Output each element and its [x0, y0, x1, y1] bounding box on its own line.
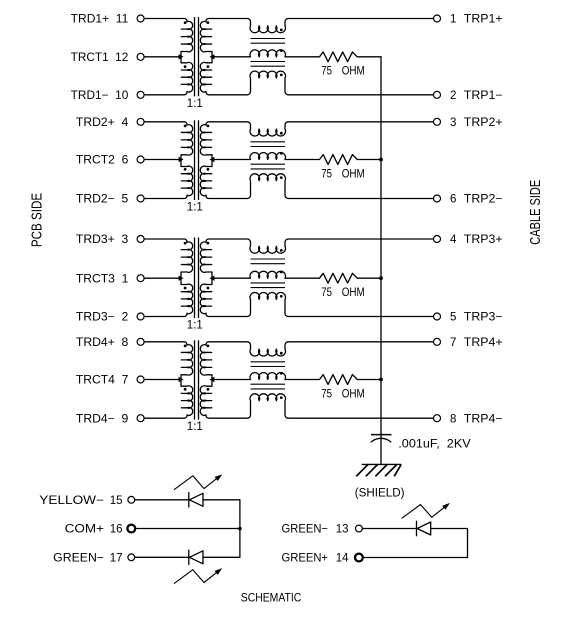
svg-text:TRD2+ 4: TRD2+ 4 — [76, 117, 129, 129]
transformer T1 primary center-tap junction — [179, 54, 184, 59]
LED D3 green: wire pin 13 to cathode — [362, 528, 416, 530]
pin 7 TRCT4 label — [76, 375, 128, 387]
svg-text:OHM: OHM — [342, 66, 365, 78]
svg-text:TRCT1 12: TRCT1 12 — [71, 52, 129, 64]
choke L3 phase dot top — [280, 249, 283, 252]
svg-text:75: 75 — [321, 168, 332, 180]
transformer T3 primary lower winding — [181, 278, 193, 313]
transformer T3 secondary upper winding — [200, 242, 212, 278]
svg-text:GREEN−: GREEN− — [282, 524, 329, 536]
pin 5 TRP3− label — [450, 312, 503, 324]
wire COM+ pin 16 to LED common — [135, 528, 240, 530]
choke L3 core upper — [251, 259, 286, 264]
choke L2 top winding with wire to pin — [206, 122, 434, 136]
pin 16 COM+ label — [65, 524, 123, 536]
transformer T1 secondary center-tap junction — [210, 54, 215, 59]
transformer T4 phase dot primary upper — [184, 345, 187, 348]
transformer T1 primary lower winding — [181, 57, 193, 92]
svg-text:TRP2+: TRP2+ — [464, 117, 503, 129]
choke L1 core upper — [251, 39, 286, 44]
transformer T1 phase dot secondary upper — [207, 21, 210, 24]
pin 2 TRP1− terminal circle — [434, 91, 441, 98]
pin 1 TRCT3 label — [76, 273, 128, 285]
LED D2 green: wire pin 17 to cathode — [135, 556, 189, 558]
svg-text:16: 16 — [110, 524, 123, 536]
LED D3 cathode bar — [416, 521, 418, 535]
junction of R4 with shield bus — [379, 378, 383, 382]
svg-text:1:1: 1:1 — [187, 421, 203, 433]
resistor R2 75 OHM — [285, 155, 381, 165]
pin 2 TRP1− label — [450, 90, 503, 102]
resistor R4 75 OHM — [285, 375, 381, 385]
transformer T4 primary upper winding — [181, 345, 193, 380]
transformer T2 secondary lower winding — [200, 160, 212, 196]
pin 12 TRCT1 terminal circle — [137, 53, 144, 60]
LED D2 emission arrow — [174, 570, 220, 584]
transformer T4 secondary center-tap junction — [210, 377, 215, 382]
svg-text:3: 3 — [450, 117, 456, 129]
transformer T2 phase dot primary upper — [184, 125, 187, 128]
svg-text:75: 75 — [321, 287, 332, 299]
transformer T4 secondary upper winding — [200, 345, 212, 380]
transformer T1 secondary upper winding — [200, 21, 212, 56]
LED D2 cathode bar — [188, 550, 190, 564]
choke L4 bottom winding with wire to pin — [206, 394, 434, 418]
svg-text:CABLE SIDE: CABLE SIDE — [527, 180, 544, 245]
choke L4 phase dot middle — [280, 372, 283, 375]
svg-text:2: 2 — [450, 90, 456, 102]
pin 15 YELLOW− label — [39, 495, 122, 507]
pin 17 GREEN− terminal circle — [128, 554, 135, 561]
wire LED D1 anode to common — [203, 500, 240, 558]
pin 4 TRP3+ label — [450, 234, 503, 246]
svg-text:4: 4 — [450, 234, 457, 246]
LED D1 triangle — [189, 493, 203, 506]
wire TRCT2 pin to transformer T2 center tap — [144, 159, 181, 161]
pin 1 TRCT3 terminal circle — [137, 275, 144, 282]
transformer T3 primary upper winding — [181, 242, 193, 278]
pin 13 GREEN− terminal circle — [356, 525, 363, 532]
pin 6 TRCT2 label — [76, 155, 128, 167]
choke L1 top winding with wire to pin — [206, 18, 434, 32]
pin 11 TRD1+ label — [71, 14, 129, 26]
pin 8 TRP4− terminal circle — [434, 415, 441, 422]
svg-text:OHM: OHM — [342, 168, 365, 180]
svg-text:1:1: 1:1 — [187, 202, 203, 214]
transformer T3 phase dot primary upper — [184, 242, 187, 245]
pin 13 GREEN− label — [282, 524, 349, 536]
pin 12 TRCT1 label — [71, 52, 129, 64]
svg-text:TRCT2 6: TRCT2 6 — [76, 155, 128, 167]
choke L2 core upper — [251, 142, 286, 147]
choke L1 bottom winding with wire to pin — [206, 71, 434, 95]
wire TRD3+ pin to transformer T3 — [144, 239, 187, 242]
transformer T4 phase dot secondary lower — [207, 388, 210, 391]
junction of R3 with shield bus — [379, 276, 383, 280]
pin 14 GREEN+ label — [282, 553, 350, 565]
transformer T4 core — [195, 340, 199, 419]
transformer T3 core — [195, 238, 199, 319]
pin 16 COM+ terminal circle — [127, 525, 135, 533]
choke L4 core upper — [251, 362, 286, 367]
pin 4 TRD2+ terminal circle — [137, 118, 144, 125]
transformer T3 phase dot secondary upper — [207, 242, 210, 245]
transformer T4 secondary lower winding — [200, 380, 212, 416]
choke L2 middle winding — [212, 153, 285, 160]
svg-text:75: 75 — [321, 66, 332, 78]
pin 3 TRD3+ label — [76, 234, 128, 246]
pin 6 TRP2− label — [450, 194, 503, 206]
pin 4 TRD2+ label — [76, 117, 129, 129]
pin 7 TRP4+ terminal circle — [434, 338, 441, 345]
wire TRD1- pin to transformer T1 — [144, 92, 187, 95]
transformer T2 primary center-tap junction — [179, 157, 184, 162]
pin 15 YELLOW− terminal circle — [128, 496, 135, 503]
choke L4 phase dot bottom — [280, 396, 283, 399]
choke L2 phase dot bottom — [280, 176, 283, 179]
transformer T4 phase dot primary lower — [184, 388, 187, 391]
label 75 OHM for R3 — [321, 287, 365, 299]
svg-text:1:1: 1:1 — [187, 98, 203, 110]
wire TRCT3 pin to transformer T3 center tap — [144, 277, 181, 279]
transformer T3 phase dot secondary lower — [207, 287, 210, 290]
wire TRCT4 pin to transformer T4 center tap — [144, 379, 181, 381]
transformer T4 primary center-tap junction — [179, 377, 184, 382]
svg-text:TRD2− 5: TRD2− 5 — [76, 194, 128, 206]
choke L1 phase dot bottom — [280, 74, 283, 77]
svg-text:TRD4+ 8: TRD4+ 8 — [76, 337, 128, 349]
choke L2 phase dot top — [280, 132, 283, 135]
svg-text:(SHIELD): (SHIELD) — [355, 488, 405, 500]
choke L2 bottom winding with wire to pin — [206, 174, 434, 199]
pin 6 TRCT2 terminal circle — [137, 156, 144, 163]
pin 8 TRD4+ terminal circle — [137, 338, 144, 345]
pin 8 TRD4+ label — [76, 337, 128, 349]
LED D3 triangle — [417, 522, 431, 535]
choke L2 phase dot middle — [280, 152, 283, 155]
svg-text:14: 14 — [336, 553, 349, 565]
transformer T3 phase dot primary lower — [184, 287, 187, 290]
wire TRD2+ pin to transformer T2 — [144, 122, 187, 125]
choke L1 phase dot middle — [280, 49, 283, 52]
pin 17 GREEN− label — [53, 553, 122, 565]
svg-text:YELLOW−: YELLOW− — [39, 495, 104, 507]
pin 3 TRD3+ terminal circle — [137, 236, 144, 243]
transformer T1 core — [195, 17, 199, 96]
transformer T3 secondary lower winding — [200, 278, 212, 313]
choke L4 phase dot top — [280, 352, 283, 355]
svg-text:7: 7 — [450, 337, 456, 349]
ground (shield earth) — [356, 464, 401, 476]
pin 6 TRP2− terminal circle — [434, 195, 441, 202]
pin 1 TRP1+ terminal circle — [434, 15, 441, 22]
transformer T2 primary lower winding — [181, 160, 193, 196]
svg-text:TRP1−: TRP1− — [464, 90, 503, 102]
transformer T2 core — [195, 120, 199, 200]
choke L2 core lower — [251, 164, 286, 169]
choke L4 top winding with wire to pin — [206, 342, 434, 356]
svg-text:TRP3−: TRP3− — [464, 312, 503, 324]
wire TRD3- pin to transformer T3 — [144, 313, 187, 316]
pin 8 TRP4− label — [450, 413, 503, 425]
svg-text:TRD3− 2: TRD3− 2 — [76, 312, 128, 324]
wire TRCT1 pin to transformer T1 center tap — [144, 56, 181, 58]
pin 5 TRD2− label — [76, 194, 128, 206]
svg-text:1:1: 1:1 — [187, 320, 203, 332]
transformer T2 primary upper winding — [181, 125, 193, 160]
LED D1 yellow: wire pin 15 to cathode — [135, 499, 189, 501]
svg-text:.001uF, 2KV: .001uF, 2KV — [398, 438, 471, 450]
label 75 OHM for R1 — [321, 66, 365, 78]
capacitor C1 flat plate — [371, 434, 392, 436]
pin 2 TRD3− label — [76, 312, 128, 324]
svg-text:TRD1+ 11: TRD1+ 11 — [71, 14, 129, 26]
svg-text:17: 17 — [110, 553, 123, 565]
transformer T2 secondary upper winding — [200, 125, 212, 160]
junction of R2 with shield bus — [379, 158, 383, 162]
choke L1 phase dot top — [280, 29, 283, 32]
choke L4 middle winding — [212, 373, 285, 380]
svg-text:TRP1+: TRP1+ — [464, 14, 503, 26]
junction COM+ with LED common — [238, 527, 242, 531]
svg-text:13: 13 — [336, 524, 349, 536]
svg-text:GREEN−: GREEN− — [53, 553, 104, 565]
transformer T1 phase dot primary upper — [184, 21, 187, 24]
svg-text:OHM: OHM — [342, 388, 365, 400]
svg-text:TRD1− 10: TRD1− 10 — [71, 90, 129, 102]
pin 5 TRD2− terminal circle — [137, 195, 144, 202]
choke L3 phase dot bottom — [280, 295, 283, 298]
wire TRD4+ pin to transformer T4 — [144, 342, 187, 345]
svg-text:OHM: OHM — [342, 287, 365, 299]
LED D3 emission arrow — [402, 505, 448, 519]
transformer T3 secondary center-tap junction — [210, 276, 215, 281]
choke L3 middle winding — [212, 271, 285, 278]
pin 7 TRP4+ label — [450, 337, 503, 349]
pin 9 TRD4− label — [76, 413, 128, 425]
choke L3 core lower — [251, 283, 286, 288]
choke L3 top winding with wire to pin — [206, 239, 434, 253]
wire TRD2- pin to transformer T2 — [144, 195, 187, 198]
pin 4 TRP3+ terminal circle — [434, 236, 441, 243]
transformer T4 phase dot secondary upper — [207, 345, 210, 348]
choke L4 core lower — [251, 384, 286, 389]
svg-text:6: 6 — [450, 194, 456, 206]
LED D2 triangle — [189, 551, 203, 564]
transformer T2 phase dot primary lower — [184, 168, 187, 171]
resistor R1 75 OHM — [285, 52, 381, 62]
svg-text:15: 15 — [110, 495, 123, 507]
transformer T2 phase dot secondary lower — [207, 168, 210, 171]
choke L3 phase dot middle — [280, 271, 283, 274]
wire TRD1+ pin to transformer T1 — [144, 18, 187, 21]
svg-text:TRP4+: TRP4+ — [464, 337, 503, 349]
pin 7 TRCT4 terminal circle — [137, 376, 144, 383]
svg-text:PCB SIDE: PCB SIDE — [29, 193, 46, 247]
choke L1 middle winding — [212, 50, 285, 57]
LED D1 cathode bar — [188, 493, 190, 507]
transformer T1 phase dot secondary lower — [207, 65, 210, 68]
wire TRD4- pin to transformer T4 — [144, 415, 187, 418]
pin 14 GREEN+ terminal circle — [355, 554, 363, 562]
transformer T4 primary lower winding — [181, 380, 193, 416]
svg-text:8: 8 — [450, 413, 456, 425]
svg-text:5: 5 — [450, 312, 456, 324]
transformer T1 primary upper winding — [181, 21, 193, 56]
LED D1 emission arrow — [174, 476, 220, 490]
choke L3 bottom winding with wire to pin — [206, 292, 434, 316]
wire capacitor to ground — [380, 433, 382, 464]
svg-text:75: 75 — [321, 388, 332, 400]
pin 9 TRD4− terminal circle — [137, 415, 144, 422]
wire LED D3 anode to pin 14 — [363, 529, 468, 558]
pin 3 TRP2+ label — [450, 117, 503, 129]
svg-text:TRP2−: TRP2− — [464, 194, 503, 206]
transformer T1 phase dot primary lower — [184, 65, 187, 68]
svg-text:GREEN+: GREEN+ — [282, 553, 329, 565]
pin 10 TRD1− label — [71, 90, 129, 102]
svg-text:TRP3+: TRP3+ — [464, 234, 503, 246]
pin 11 TRD1+ terminal circle — [137, 15, 144, 22]
pin 3 TRP2+ terminal circle — [434, 118, 441, 125]
resistor R3 75 OHM — [285, 273, 381, 283]
transformer T2 phase dot secondary upper — [207, 125, 210, 128]
capacitor C1 curved plate — [371, 438, 391, 442]
choke L1 core lower — [251, 62, 286, 67]
svg-text:TRCT4 7: TRCT4 7 — [76, 375, 128, 387]
label 75 OHM for R4 — [321, 388, 365, 400]
pin 5 TRP3− terminal circle — [434, 313, 441, 320]
svg-text:TRD4− 9: TRD4− 9 — [76, 413, 128, 425]
pin 2 TRD3− terminal circle — [137, 313, 144, 320]
wire shield bus (resistor common) — [380, 57, 382, 435]
label 75 OHM for R2 — [321, 168, 365, 180]
transformer T3 primary center-tap junction — [179, 276, 184, 281]
svg-text:SCHEMATIC: SCHEMATIC — [241, 590, 302, 604]
transformer T2 secondary center-tap junction — [210, 157, 215, 162]
pin 10 TRD1− terminal circle — [137, 91, 144, 98]
pin 1 TRP1+ label — [450, 14, 503, 26]
svg-text:1: 1 — [450, 14, 456, 26]
svg-text:TRP4−: TRP4− — [464, 413, 503, 425]
transformer T1 secondary lower winding — [200, 57, 212, 92]
svg-text:TRD3+ 3: TRD3+ 3 — [76, 234, 128, 246]
svg-text:TRCT3 1: TRCT3 1 — [76, 273, 128, 285]
svg-text:COM+: COM+ — [65, 524, 105, 536]
